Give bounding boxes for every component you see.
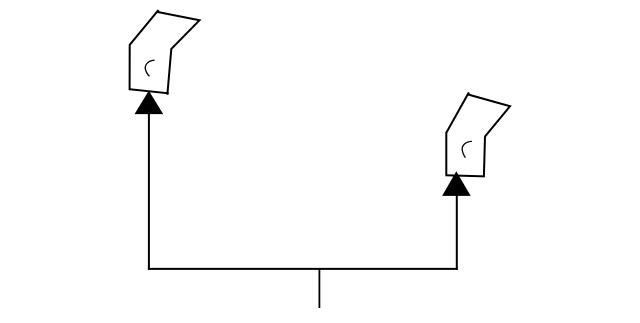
- right shape inner curve: [462, 141, 472, 157]
- wire: left vertical line: [148, 113, 150, 270]
- wire: right vertical line: [456, 195, 458, 270]
- left shape corner overshoot ticks: [166, 93, 168, 95]
- node A: left pentagon shape: [130, 10, 200, 93]
- wire: horizontal connector line: [148, 268, 458, 270]
- wire: middle stem line: [318, 268, 320, 308]
- arrowhead to left shape: [135, 92, 162, 114]
- left shape inner curve: [145, 60, 154, 76]
- arrowhead to right shape: [443, 172, 470, 195]
- node B: right pentagon shape: [446, 93, 510, 177]
